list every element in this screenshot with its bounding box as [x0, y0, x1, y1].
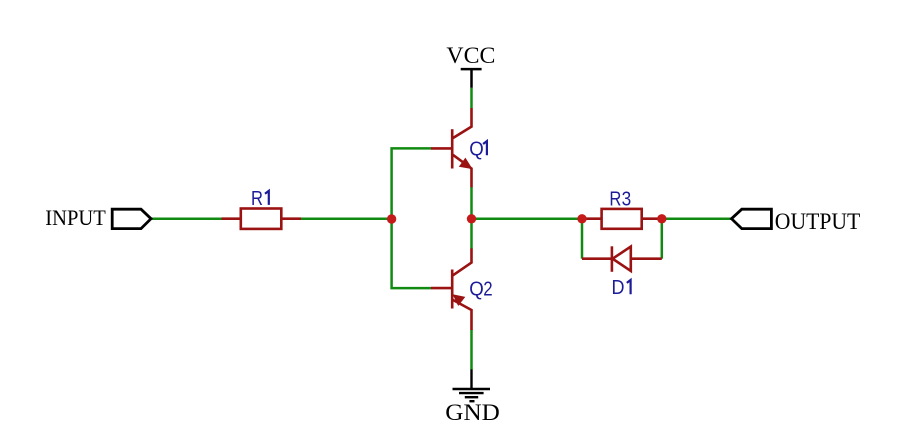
svg-text:D: D [612, 277, 625, 299]
svg-text:INPUT: INPUT [45, 205, 106, 230]
svg-text:GND: GND [445, 400, 500, 425]
svg-text:VCC: VCC [446, 43, 495, 68]
svg-text:Q: Q [469, 138, 484, 160]
svg-text:R: R [251, 188, 263, 210]
svg-text:2: 2 [483, 278, 492, 300]
svg-text:3: 3 [622, 189, 632, 211]
svg-text:R: R [609, 189, 621, 211]
svg-text:OUTPUT: OUTPUT [775, 209, 861, 234]
svg-text:Q: Q [469, 278, 484, 300]
